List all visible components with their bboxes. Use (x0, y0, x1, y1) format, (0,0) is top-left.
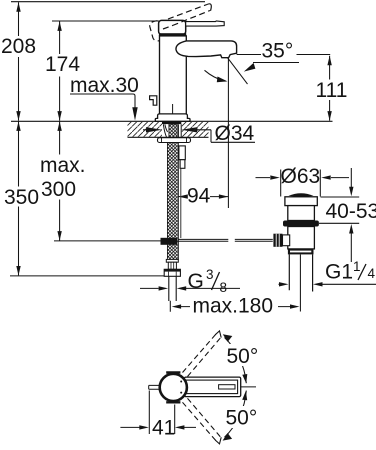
svg-text:8: 8 (220, 280, 228, 295)
svg-text:G1: G1 (325, 261, 353, 284)
svg-text:1: 1 (353, 259, 361, 274)
svg-text:G: G (188, 270, 204, 293)
svg-text:4: 4 (368, 266, 376, 281)
svg-text:50°: 50° (226, 407, 258, 430)
svg-text:max.180: max.180 (193, 295, 274, 318)
svg-text:max.30: max.30 (70, 74, 139, 97)
svg-text:94: 94 (187, 185, 211, 208)
svg-text:350: 350 (4, 186, 39, 209)
svg-text:50°: 50° (227, 345, 259, 368)
svg-text:35°: 35° (262, 40, 294, 63)
svg-text:Ø34: Ø34 (215, 122, 255, 145)
svg-text:max.: max. (40, 154, 86, 177)
svg-text:3: 3 (206, 267, 214, 282)
svg-text:Ø63: Ø63 (281, 165, 321, 188)
svg-text:41: 41 (152, 417, 175, 440)
svg-text:40-53: 40-53 (326, 200, 376, 223)
svg-text:300: 300 (41, 178, 76, 201)
svg-text:174: 174 (45, 53, 80, 76)
svg-text:111: 111 (316, 79, 348, 102)
svg-text:208: 208 (1, 35, 36, 58)
